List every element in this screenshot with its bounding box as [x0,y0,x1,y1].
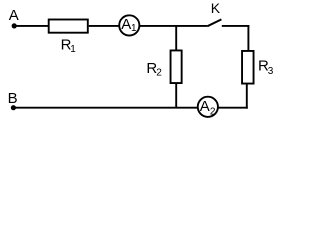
ammeter A2 [198,97,218,118]
svg-text:1: 1 [70,44,76,55]
wire R3 down to bottom wire [246,84,248,109]
wire B to A2 [13,107,198,109]
svg-text:A: A [200,98,210,115]
wire switch to top-right corner [222,25,250,27]
wire A to R1 [14,25,48,27]
switch K [207,0,221,26]
svg-text:K: K [211,0,221,16]
resistor R3 [242,51,274,84]
wire junction to R2 [175,26,177,51]
svg-text:1: 1 [131,23,137,34]
wire top-right corner down to R3 [247,25,249,51]
resistor R1 [49,20,88,56]
svg-text:B: B [8,90,18,107]
svg-text:2: 2 [156,67,162,78]
wire R2 down to bottom wire [175,83,177,108]
wire A2 to bottom-right corner [218,107,248,109]
wire R1 to A1 [89,25,119,27]
wire A1 to switch [140,25,208,27]
resistor R2 [146,50,181,83]
svg-text:3: 3 [268,66,274,77]
node B [8,90,18,110]
svg-text:2: 2 [210,106,216,117]
node A [9,7,19,29]
ammeter A1 [119,15,139,35]
svg-text:A: A [9,7,19,24]
svg-text:A: A [121,16,131,33]
